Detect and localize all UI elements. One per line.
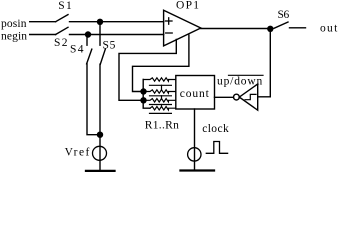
wire OP1 output to S6 <box>201 28 270 30</box>
node junction dot Vref top <box>97 132 103 138</box>
switch S2 <box>54 27 68 49</box>
net label up/down with overline <box>217 75 263 87</box>
counter count <box>176 76 215 110</box>
svg-text:negin: negin <box>1 31 27 43</box>
svg-text:clock: clock <box>202 123 229 135</box>
wire S6 to out <box>290 27 306 29</box>
clock pulse symbol <box>206 142 227 154</box>
node junction dot at OP1 output <box>267 26 273 32</box>
wire count clock input <box>194 109 196 170</box>
resistor R2 <box>147 90 176 99</box>
wire count to inverter bubble <box>215 96 234 98</box>
wire S1 to op-amp plus input <box>70 21 164 23</box>
node junction dot on minus wire <box>85 31 91 37</box>
wire S5 down to Vref node <box>99 64 101 170</box>
svg-text:posin: posin <box>1 18 27 30</box>
source clock generator <box>188 148 201 161</box>
svg-text:S4: S4 <box>70 43 84 55</box>
node junction dot on plus wire <box>97 19 103 25</box>
resistor R4 <box>150 107 176 114</box>
pin minus of OP1 <box>166 32 173 34</box>
wire feedback A from OP1 bottom edge to resistor rail lower dot <box>119 40 176 101</box>
switch S4 <box>70 35 92 64</box>
wire output junction down to inverter input <box>258 29 270 97</box>
op-amp OP1 <box>164 0 201 46</box>
ground clock <box>181 169 215 171</box>
switch S5 <box>100 22 116 64</box>
resistor R3 <box>147 99 176 107</box>
wire S2 to op-amp minus input <box>70 34 164 36</box>
source Vref <box>93 146 107 160</box>
node junction dot rail upper <box>140 88 146 94</box>
switch S6 <box>274 9 290 29</box>
svg-text:out: out <box>320 22 338 34</box>
svg-text:S6: S6 <box>278 9 290 21</box>
node junction dot rail lower <box>140 97 146 103</box>
wire negin input <box>30 34 56 36</box>
svg-text:S5: S5 <box>103 39 116 51</box>
pin plus of OP1 <box>166 18 173 24</box>
resistor network left rail <box>143 80 150 109</box>
inverter U2 schmitt <box>234 84 258 110</box>
svg-text:Vref: Vref <box>65 147 90 159</box>
resistor R1 <box>143 78 176 90</box>
svg-text:count: count <box>180 88 210 100</box>
ground Vref <box>86 170 115 172</box>
svg-text:OP1: OP1 <box>176 0 199 11</box>
wire S4 down to Vref node <box>87 64 100 135</box>
wire feedback B from OP1 bottom edge to resistor rail upper dot <box>133 35 189 92</box>
svg-text:up/down: up/down <box>217 76 263 88</box>
switch S1 <box>56 0 72 22</box>
svg-text:S2: S2 <box>54 37 68 49</box>
svg-text:R1..Rn: R1..Rn <box>145 120 179 132</box>
svg-text:S1: S1 <box>58 0 72 12</box>
wire posin input <box>30 21 56 23</box>
